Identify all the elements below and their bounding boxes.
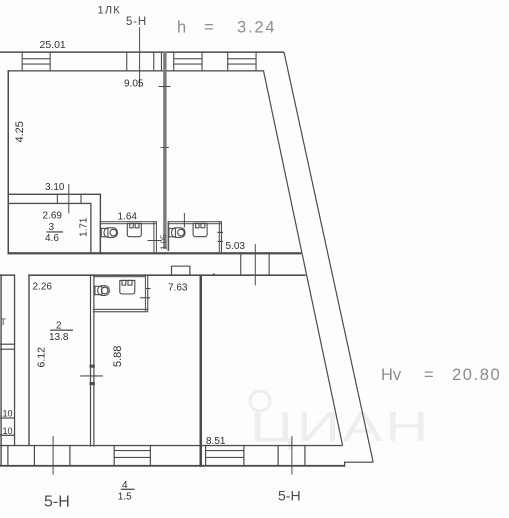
room3 top wall outer: [8, 194, 101, 195]
svg-text:2Т: 2Т: [0, 317, 6, 328]
bottom band verticals: [7, 445, 305, 466]
passage jamb left: [240, 252, 241, 275]
WC1 toilet: [101, 228, 117, 238]
leader bottom left: [53, 436, 54, 475]
svg-text:1ЛК: 1ЛК: [98, 5, 121, 17]
svg-text:9.05: 9.05: [124, 79, 144, 90]
lower WC top second line: [93, 276, 145, 277]
leader room3: [68, 184, 69, 214]
tick on top wall: [213, 274, 215, 276]
partition wall room2: [90, 274, 91, 446]
window dividers: [153, 51, 154, 71]
room3 band dividers: [57, 194, 58, 205]
lower WC bottom wall: [93, 309, 149, 310]
WC2 right wall: [219, 221, 220, 252]
WC1 top wall: [100, 221, 157, 222]
bottom step horizontal: [344, 462, 373, 463]
window WD glazing: [114, 450, 151, 451]
svg-text:1.5: 1.5: [118, 492, 132, 503]
left wall upper block: [8, 70, 10, 253]
svg-text:1.71: 1.71: [78, 217, 89, 237]
room3 top wall inner: [8, 203, 92, 204]
svg-text:ЦИАН: ЦИАН: [250, 403, 431, 450]
window WE glazing: [205, 450, 245, 451]
inner slanted wall: [264, 71, 343, 446]
lower WC sink: [120, 280, 135, 294]
dark wall middle: [200, 274, 203, 467]
svg-text:5-Н: 5-Н: [278, 488, 301, 504]
WC2 sink: [193, 223, 207, 236]
svg-text:13.8: 13.8: [49, 332, 69, 343]
svg-text:3.10: 3.10: [45, 182, 65, 193]
lower WC toilet: [95, 286, 109, 296]
bottom wall inner line: [0, 445, 343, 446]
grey riser line: [163, 51, 166, 249]
svg-text:3: 3: [49, 222, 55, 233]
room2 left wall: [28, 274, 29, 445]
leader 5.03: [255, 244, 256, 286]
svg-text:7.63: 7.63: [168, 283, 188, 294]
left column outer edge: [0, 274, 1, 465]
door notch: [171, 266, 191, 276]
bottom step vertical: [344, 462, 345, 467]
top inner wall: [8, 70, 265, 71]
svg-text:5.88: 5.88: [112, 346, 124, 367]
svg-text:1.05: 1.05: [159, 234, 168, 250]
small tick mid grey line: [161, 147, 170, 148]
svg-text:2.26: 2.26: [33, 282, 53, 293]
window W2 glazing: [173, 58, 202, 59]
watermark ring: [250, 391, 270, 411]
WC2 door jamb ticks: [218, 232, 224, 233]
fraction line room2: [50, 330, 73, 331]
WC2 left wall: [168, 221, 170, 251]
window W3 glazing: [227, 58, 256, 59]
WC1 door tick: [148, 240, 162, 241]
svg-text:1.64: 1.64: [118, 212, 138, 223]
svg-text:5-Н: 5-Н: [126, 16, 147, 28]
svg-text:5-Н: 5-Н: [44, 494, 70, 511]
lower WC door ticks: [146, 288, 151, 289]
room3 right wall inner: [90, 203, 91, 253]
left column right wall: [14, 274, 15, 445]
partition jamb marks: [90, 365, 95, 368]
svg-text:6.12: 6.12: [35, 347, 47, 368]
passage jamb right: [269, 252, 270, 275]
svg-text:1.10: 1.10: [0, 426, 13, 436]
room3 right wall outer: [100, 194, 101, 253]
leader above WC2: [184, 213, 185, 228]
window divider: [126, 51, 127, 71]
WC1 left wall: [100, 221, 101, 252]
svg-text:4.25: 4.25: [14, 121, 26, 142]
window W1 glazing: [22, 58, 51, 59]
lower block top wall: [28, 274, 305, 276]
corridor bottom wall: [8, 252, 302, 254]
partition tick: [80, 375, 103, 376]
WC2 toilet: [169, 228, 185, 238]
WC1 sink: [127, 223, 141, 236]
left column line: [0, 417, 15, 418]
left column line 2: [0, 435, 15, 436]
svg-text:5.03: 5.03: [226, 241, 246, 252]
svg-text:25.01: 25.01: [40, 39, 66, 51]
fraction line room3: [47, 231, 64, 232]
svg-text:2.69: 2.69: [43, 211, 63, 222]
svg-text:4.6: 4.6: [45, 233, 59, 244]
top outer wall: [0, 51, 284, 53]
tick on grey line: [159, 86, 171, 87]
outer slanted wall: [284, 52, 373, 462]
WC2 top wall: [168, 221, 222, 222]
left column landing lines: [0, 344, 15, 345]
fraction line room4: [121, 489, 135, 490]
WC1 right wall: [153, 221, 154, 252]
leader bottom right: [291, 436, 292, 475]
leader 9.05: [139, 27, 140, 87]
bottom wall outer line: [0, 465, 345, 467]
lower WC right wall: [145, 274, 146, 311]
svg-text:1.10: 1.10: [0, 409, 13, 419]
left column top: [0, 274, 15, 276]
